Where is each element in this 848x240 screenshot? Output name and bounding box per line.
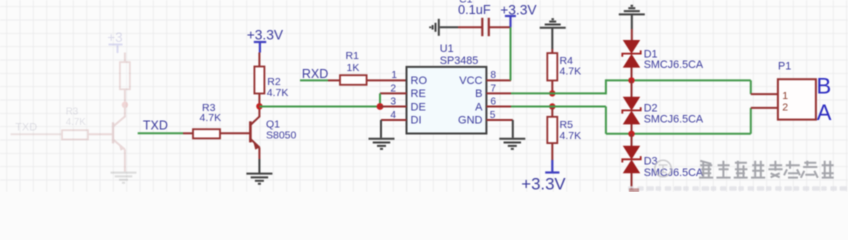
pin 1 stub P1 xyxy=(751,93,778,95)
resistor R5 label xyxy=(560,119,582,142)
svg-text:SP3485: SP3485 xyxy=(440,55,478,67)
svg-text:4.7K: 4.7K xyxy=(66,117,87,128)
pin 4 stub (DI) xyxy=(381,119,407,121)
label Q1 S8050 xyxy=(266,118,297,141)
svg-text:2: 2 xyxy=(782,101,788,113)
resistor R4 xyxy=(547,49,557,93)
resistor R2 label xyxy=(267,76,289,99)
wire R1 to U1 pin1 xyxy=(367,79,407,81)
svg-text:SMCJ6.5CA: SMCJ6.5CA xyxy=(644,59,704,71)
svg-text:4.7K: 4.7K xyxy=(267,87,289,99)
pin 5 stub (GND) xyxy=(486,119,512,121)
pin names left xyxy=(411,75,428,127)
pin names right xyxy=(458,75,483,127)
diode D2 xyxy=(622,80,640,133)
svg-text:1: 1 xyxy=(782,90,788,102)
pin numbers right xyxy=(490,70,497,121)
resistor R1 label xyxy=(346,50,360,74)
wire pin5 to ground xyxy=(512,120,514,138)
watermark juejin community text xyxy=(655,160,834,178)
pin 2 stub P1 xyxy=(751,107,778,109)
power +3.3V (VCC) xyxy=(500,2,537,27)
connector P1 designator xyxy=(778,61,791,73)
pin 3 stub (DE) xyxy=(380,106,407,108)
svg-text:7: 7 xyxy=(490,83,496,94)
connector P1 body xyxy=(778,79,816,119)
svg-text:R2: R2 xyxy=(267,76,281,88)
faint bottom watermark row xyxy=(628,186,847,192)
resistor R3 label xyxy=(200,102,222,124)
resistor R4 label xyxy=(560,55,582,78)
svg-text:+3.3V: +3.3V xyxy=(521,174,566,192)
svg-text:+3: +3 xyxy=(107,30,122,45)
transistor Q1 xyxy=(250,106,260,159)
pin 8 stub (VCC) xyxy=(486,79,511,81)
faded ghost copy of TXD driver section xyxy=(11,30,137,183)
IC U1 SP3485 body xyxy=(407,67,487,134)
svg-text:R3: R3 xyxy=(66,106,79,117)
wire to C1 left plate xyxy=(458,26,482,28)
net label TXD xyxy=(143,118,168,132)
svg-text:4.7K: 4.7K xyxy=(560,130,582,142)
svg-text:2: 2 xyxy=(390,83,396,94)
svg-text:SMCJ6.5CA: SMCJ6.5CA xyxy=(644,113,704,125)
svg-text:RE: RE xyxy=(411,88,426,100)
wire DI to ground xyxy=(380,120,382,138)
P1 pin numbers xyxy=(782,90,788,113)
svg-text:Q1: Q1 xyxy=(266,118,280,130)
pin 6 stub (A) xyxy=(486,106,511,108)
ground under Q1 xyxy=(246,174,272,184)
resistor R3 xyxy=(183,129,250,138)
svg-text:A: A xyxy=(475,101,483,113)
power +3.3V (R2) xyxy=(247,28,284,53)
ground above R4 xyxy=(540,19,566,49)
resistor R2 xyxy=(254,53,264,107)
wire Q1 emitter to ground xyxy=(258,159,260,173)
junction at Q1 collector xyxy=(256,103,262,109)
net label B xyxy=(817,73,832,98)
svg-text:TXD: TXD xyxy=(15,122,37,134)
svg-text:RO: RO xyxy=(411,75,428,87)
resistor R5 xyxy=(547,107,557,161)
resistor R1 xyxy=(328,75,367,85)
wire A net xyxy=(511,107,751,134)
diode D2 label xyxy=(644,102,704,125)
ground above D1 xyxy=(619,6,645,29)
svg-text:S8050: S8050 xyxy=(266,130,297,142)
svg-text:R1: R1 xyxy=(346,50,360,62)
diode D1 xyxy=(622,29,640,80)
op-amp U1 designator xyxy=(440,43,478,67)
diode D3 label xyxy=(644,156,704,180)
svg-text:+3.3V: +3.3V xyxy=(247,28,284,43)
svg-text:0.1uF: 0.1uF xyxy=(458,2,491,17)
wire RE to DE xyxy=(379,93,381,106)
svg-text:U1: U1 xyxy=(440,43,454,55)
svg-text:P1: P1 xyxy=(778,61,791,73)
svg-text:4.7K: 4.7K xyxy=(560,66,582,78)
diode D1 label xyxy=(644,48,704,70)
svg-text:B: B xyxy=(817,73,832,98)
ground under pin 5 xyxy=(499,139,525,149)
ground under DI xyxy=(369,139,395,149)
junction R5/A xyxy=(549,103,555,109)
capacitor C1 xyxy=(482,18,489,36)
junction DE xyxy=(377,103,384,110)
svg-text:1: 1 xyxy=(391,70,397,81)
svg-text:TXD: TXD xyxy=(143,118,168,132)
wire C1 to +3.3V xyxy=(489,26,511,28)
net label A xyxy=(817,100,832,125)
junction D2/A xyxy=(628,131,634,137)
pin numbers left xyxy=(390,70,397,121)
wire +3.3V to VCC pin xyxy=(510,27,512,80)
wire RXD to R1 xyxy=(300,79,328,81)
svg-text:B: B xyxy=(475,88,482,100)
diode D3 xyxy=(622,134,640,190)
ground left of C1 xyxy=(430,19,439,36)
wire TXD to R3 xyxy=(138,132,183,134)
svg-text:4.7K: 4.7K xyxy=(200,112,222,124)
power +3.3V (R5) xyxy=(521,160,566,193)
svg-text:A: A xyxy=(817,100,832,125)
svg-text:4: 4 xyxy=(390,110,396,121)
junction D1/B xyxy=(628,77,634,83)
svg-text:DE: DE xyxy=(411,101,426,113)
wire B net xyxy=(511,79,751,94)
svg-text:3: 3 xyxy=(390,97,396,108)
svg-text:GND: GND xyxy=(458,115,483,127)
svg-text:5: 5 xyxy=(490,110,496,121)
svg-text:6: 6 xyxy=(490,97,496,108)
pin 7 stub (B) xyxy=(486,92,511,94)
svg-text:VCC: VCC xyxy=(459,75,482,87)
wire DE net (Q1 to U1 pin3) xyxy=(259,106,380,108)
svg-text:DI: DI xyxy=(411,115,422,127)
capacitor C1 label xyxy=(458,0,491,17)
junction R4/B xyxy=(549,90,555,96)
svg-text:8: 8 xyxy=(490,70,496,81)
pin 2 stub (RE) xyxy=(380,92,407,94)
net label RXD xyxy=(302,67,328,81)
wire ground to C1 xyxy=(440,26,458,28)
svg-text:SMCJ6.5CA: SMCJ6.5CA xyxy=(644,167,704,179)
svg-text:RXD: RXD xyxy=(302,67,328,81)
svg-text:1K: 1K xyxy=(347,62,360,74)
